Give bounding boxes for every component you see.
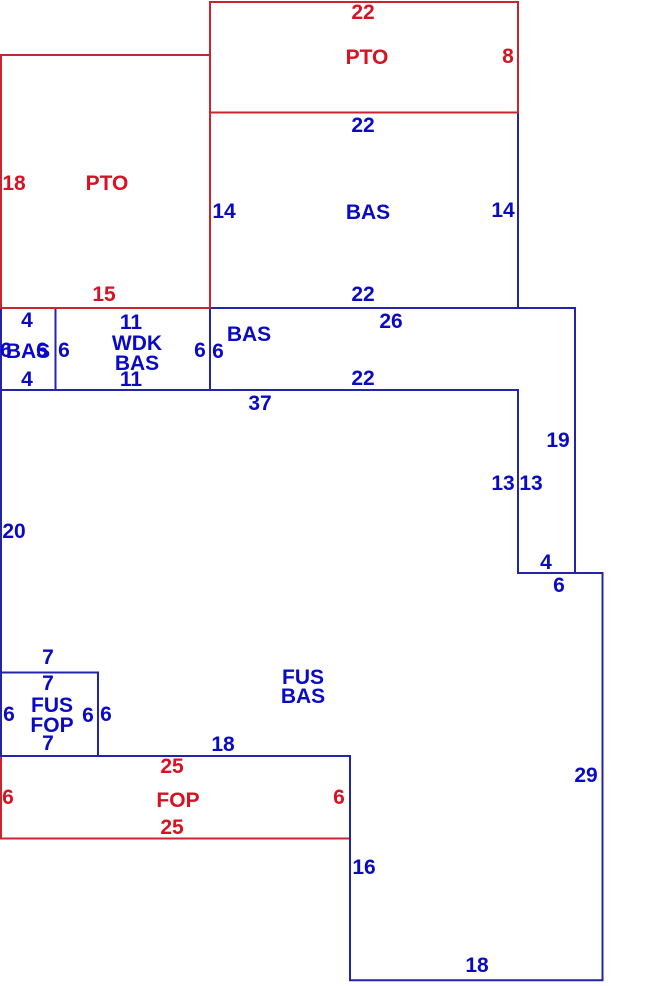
svg-text:4: 4 [21, 368, 33, 391]
svg-text:6: 6 [82, 704, 94, 727]
svg-text:13: 13 [491, 472, 514, 495]
svg-text:25: 25 [160, 755, 184, 778]
svg-text:26: 26 [379, 310, 402, 333]
svg-text:14: 14 [491, 199, 515, 222]
svg-text:11: 11 [120, 368, 143, 391]
svg-text:6: 6 [100, 703, 112, 726]
svg-text:22: 22 [351, 114, 374, 137]
svg-text:6: 6 [2, 786, 14, 809]
svg-text:15: 15 [92, 283, 116, 306]
svg-text:18: 18 [211, 733, 235, 756]
svg-text:PTO: PTO [346, 46, 389, 69]
svg-text:6: 6 [553, 574, 565, 597]
svg-text:BAS: BAS [281, 685, 325, 708]
svg-text:14: 14 [212, 200, 236, 223]
svg-text:8: 8 [502, 45, 514, 68]
svg-text:22: 22 [351, 1, 374, 24]
svg-text:22: 22 [351, 283, 374, 306]
svg-text:BAS: BAS [227, 323, 271, 346]
svg-text:4: 4 [540, 551, 552, 574]
svg-text:PTO: PTO [86, 172, 129, 195]
svg-text:6: 6 [333, 786, 345, 809]
svg-text:25: 25 [160, 816, 184, 839]
svg-text:7: 7 [42, 732, 54, 755]
svg-text:18: 18 [465, 954, 489, 977]
svg-text:7: 7 [42, 672, 54, 695]
svg-text:29: 29 [574, 764, 597, 787]
svg-text:13: 13 [519, 472, 542, 495]
svg-text:18: 18 [2, 172, 26, 195]
svg-text:19: 19 [546, 429, 569, 452]
svg-text:6: 6 [212, 340, 224, 363]
svg-text:11: 11 [120, 311, 143, 334]
svg-text:6: 6 [36, 339, 48, 362]
svg-text:6: 6 [194, 339, 206, 362]
svg-text:FOP: FOP [156, 789, 199, 812]
svg-text:22: 22 [351, 367, 374, 390]
svg-text:37: 37 [248, 392, 271, 415]
svg-text:7: 7 [42, 646, 54, 669]
svg-text:6: 6 [3, 703, 15, 726]
svg-text:BAS: BAS [346, 201, 390, 224]
svg-text:16: 16 [352, 856, 375, 879]
svg-text:4: 4 [21, 309, 33, 332]
svg-text:6: 6 [58, 339, 70, 362]
svg-text:20: 20 [2, 520, 25, 543]
